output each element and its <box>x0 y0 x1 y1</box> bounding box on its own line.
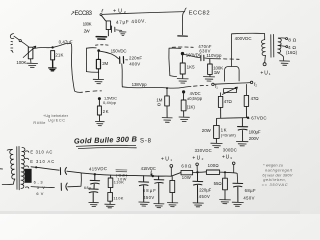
OPT primary coil <box>261 40 265 56</box>
svg-text:20W: 20W <box>202 128 212 133</box>
wire secondary lower to cap2 <box>31 186 54 189</box>
capacitor rectifier upper <box>60 167 66 174</box>
wire cap to grid run <box>205 57 221 60</box>
svg-text:+U₁: +U₁ <box>161 156 172 162</box>
svg-text:100µF: 100µF <box>249 129 261 134</box>
tick near input <box>12 51 13 53</box>
svg-text:S-8: S-8 <box>140 138 152 144</box>
svg-text:±0,5Vpp: ±0,5Vpp <box>187 96 203 101</box>
resistor 47R right <box>244 95 248 117</box>
resistor 21K <box>51 51 55 68</box>
node I +U2 <box>196 171 198 173</box>
ground under 2K <box>95 121 104 125</box>
svg-text:21K: 21K <box>55 52 63 57</box>
svg-text:2M: 2M <box>102 61 108 66</box>
resistor 100K grid leak 300B <box>208 59 213 76</box>
wire grid horizontal to ECC83 <box>75 91 83 92</box>
resistor 2K <box>97 100 101 121</box>
ground under last cap <box>232 202 243 206</box>
T1 secondary coil <box>21 147 25 188</box>
svg-text:60Ω: 60Ω <box>181 163 192 168</box>
note GZ underline <box>116 170 128 172</box>
resistor 55R bleeder <box>223 173 228 199</box>
ground under 1M <box>162 118 172 123</box>
wire anode to coupling cap <box>100 51 119 59</box>
resistor 2M <box>96 52 100 79</box>
filament terminal f2 <box>250 81 252 83</box>
svg-text:68µ: 68µ <box>84 186 91 190</box>
wire +U2 rail <box>102 12 185 15</box>
T1 secondary dark section <box>25 169 32 183</box>
svg-text:330VDC: 330VDC <box>195 148 212 153</box>
svg-text:2W: 2W <box>84 29 91 34</box>
svg-text:110K: 110K <box>114 180 124 185</box>
T1 secondary taps <box>25 151 29 188</box>
svg-text:ECC82: ECC82 <box>189 11 210 17</box>
node F 67VDC <box>247 117 249 119</box>
capacitor 220uF filter <box>193 173 203 202</box>
svg-text:68µF: 68µF <box>245 188 256 193</box>
capacitor 68uF filter <box>139 176 149 202</box>
filament wire <box>214 83 250 85</box>
wire bracket left of ECC82 <box>169 48 181 76</box>
svg-text:415VDC: 415VDC <box>89 166 107 172</box>
svg-text:(1K): (1K) <box>187 105 196 110</box>
resistor 1K 20W cathode bias <box>214 119 220 143</box>
wire cap down to long run <box>121 64 124 87</box>
svg-text:1W: 1W <box>214 70 221 75</box>
bleeder 110K upper <box>108 175 113 192</box>
node E 4VDC <box>182 90 185 93</box>
hum pot <box>222 87 237 94</box>
node B anode 150VDC <box>97 49 100 52</box>
OPT core <box>271 34 274 57</box>
node J 55R <box>224 171 226 173</box>
svg-text:←67VDC: ←67VDC <box>247 115 267 120</box>
T1 core <box>17 146 19 189</box>
svg-text:+U₂: +U₂ <box>113 8 126 14</box>
filament terminal f1 <box>212 83 214 85</box>
resistor vertical at +U1 <box>170 176 175 202</box>
T1 left edge stub <box>0 168 2 170</box>
resistor 1K cathode2 <box>181 93 186 116</box>
leg to 47R left <box>220 93 222 97</box>
capacitor 47uF decoupling <box>111 26 121 32</box>
junction 1M top <box>166 87 168 89</box>
svg-text:8Ω: 8Ω <box>288 38 296 44</box>
node C cathode 1,5VDC <box>98 97 101 100</box>
svg-text:100K: 100K <box>16 60 26 65</box>
svg-text:220nF: 220nF <box>129 56 142 61</box>
svg-text:55Ω: 55Ω <box>214 181 223 186</box>
capacitor 470nF <box>201 55 204 61</box>
wire rail drop to ECC82 plate <box>183 12 185 35</box>
svg-text:↗ECC83: ↗ECC83 <box>70 11 93 17</box>
ground OPT secondary <box>280 61 290 66</box>
tube ECC82 envelope dashes <box>172 46 193 48</box>
wire secondary to cap1 <box>31 167 59 170</box>
wire node to 470nF cap <box>184 54 200 57</box>
ground under 2M <box>93 79 103 83</box>
capacitor first filter (double) <box>89 175 100 202</box>
wire dashed to driver grid <box>194 85 208 88</box>
svg-text:0,47µF: 0,47µF <box>59 40 73 45</box>
resistor 47R left <box>218 96 222 117</box>
svg-text:110K: 110K <box>113 195 123 200</box>
capacitor 220nF coupling <box>120 57 128 64</box>
wire 300B plate to OPT <box>231 33 264 66</box>
node D 160VDC <box>181 52 184 55</box>
resistor 1M <box>165 89 170 117</box>
svg-text:450V: 450V <box>143 195 154 200</box>
ground under 55R <box>220 200 231 204</box>
ground under 100uF <box>236 141 248 146</box>
ground under 68uF <box>139 202 149 206</box>
svg-text:1K: 1K <box>221 128 227 133</box>
tube ECC83 box <box>86 48 98 73</box>
svg-text:Ug/ECC: Ug/ECC <box>48 118 65 122</box>
OPT secondary top tap 8R <box>278 37 285 39</box>
wire cap1 to join <box>67 171 81 173</box>
svg-text:415VDC: 415VDC <box>141 166 156 171</box>
tube 300B dome <box>225 66 240 81</box>
note asterisk annotation <box>262 163 293 187</box>
OPT secondary coil <box>278 38 282 52</box>
node G rectifier out <box>94 173 96 175</box>
svg-text:6,3: 6,3 <box>34 180 43 185</box>
svg-text:200V: 200V <box>249 136 259 141</box>
svg-text:400V: 400V <box>129 61 140 66</box>
leg to 47R right <box>245 84 247 95</box>
ground under 1K <box>179 117 189 122</box>
svg-text:1K5: 1K5 <box>187 65 196 70</box>
ground under +U1 resistor <box>167 203 177 207</box>
resistor 1K5 cathode <box>180 55 185 78</box>
resistor 100R series <box>206 170 219 174</box>
svg-text:100K: 100K <box>83 21 92 26</box>
OPT secondary bottom lead <box>278 53 284 61</box>
wire 60R to 100R <box>193 171 207 174</box>
terminal +U1 top <box>263 63 266 66</box>
svg-text:+U₃: +U₃ <box>222 155 232 161</box>
node rail start <box>100 14 102 16</box>
svg-text:6V: 6V <box>36 191 43 196</box>
ground under second cap <box>154 204 164 208</box>
ground under P1 <box>27 63 38 67</box>
capacitor second small <box>154 176 164 203</box>
title underline <box>76 145 137 148</box>
capacitor 68uF last <box>233 183 243 202</box>
bleeder 110K lower <box>108 192 113 203</box>
wire 100R to end <box>220 172 238 183</box>
svg-text:f₂: f₂ <box>254 82 257 87</box>
svg-text:47Ω: 47Ω <box>224 99 233 104</box>
ground under first filter cap <box>89 202 99 206</box>
svg-text:47Ω: 47Ω <box>251 96 260 101</box>
wire dashed grid run 300B <box>224 58 240 60</box>
svg-text:300DC: 300DC <box>223 147 237 152</box>
svg-text:0,4Vpp: 0,4Vpp <box>103 100 117 105</box>
wire grid drop vertical <box>71 44 74 91</box>
svg-text:RöMe: RöMe <box>33 121 45 125</box>
ground at 47uF <box>119 32 126 36</box>
wire node to grid drop <box>54 43 71 47</box>
node H 415VDC <box>152 175 154 177</box>
svg-text:(16Ω): (16Ω) <box>286 50 298 55</box>
wire pot wiper to node <box>34 48 52 49</box>
svg-text:450V: 450V <box>243 195 254 200</box>
svg-text:110Vpp: 110Vpp <box>206 53 222 58</box>
svg-text:E 310 AC: E 310 AC <box>30 150 52 155</box>
svg-text:E 310 AC: E 310 AC <box>30 159 54 164</box>
svg-text:2K: 2K <box>103 109 109 114</box>
terminal +U1 psu <box>170 165 173 168</box>
svg-text:f₁: f₁ <box>215 84 218 89</box>
arrow 415VDC down <box>150 170 152 175</box>
svg-text:450V: 450V <box>199 194 210 199</box>
node T1 tap <box>35 166 37 168</box>
svg-text:68µF: 68µF <box>143 188 156 193</box>
wire cap2 up to join <box>68 173 82 187</box>
wire long signal run <box>122 86 191 88</box>
T1 primary bottom lead <box>2 179 15 184</box>
input jack J1 <box>10 34 28 52</box>
resistor 100K 2W <box>101 16 110 36</box>
terminal +U3 psu <box>232 162 235 165</box>
svg-text:+Ug beheizter: +Ug beheizter <box>43 114 69 118</box>
svg-text:220µF: 220µF <box>199 188 211 193</box>
ground under 21K <box>49 68 56 71</box>
capacitor rectifier lower <box>61 183 67 190</box>
svg-text:+U₂: +U₂ <box>192 156 203 162</box>
svg-text:138Vpp: 138Vpp <box>132 82 148 87</box>
ground under 100K (wide) <box>96 37 106 40</box>
svg-text:+U₁: +U₁ <box>260 70 270 76</box>
wire cathode join <box>217 117 249 120</box>
ground under bias R <box>211 143 222 148</box>
ground under 220uF <box>193 203 203 207</box>
svg-text:400VDC: 400VDC <box>235 36 252 41</box>
ground under 1K5 <box>177 79 188 84</box>
svg-text:== 350VAC: == 350VAC <box>262 182 288 187</box>
wire dashed grid entry <box>86 90 102 93</box>
resistor 60R 10W series <box>181 170 193 174</box>
dashes above ECC83 node <box>96 44 109 46</box>
mains transformer T1 primary <box>7 148 12 151</box>
svg-text:(=Draht): (=Draht) <box>221 134 237 138</box>
svg-text:100Ω: 100Ω <box>208 163 220 168</box>
plate bar ECC82 <box>178 35 188 37</box>
svg-text:10W: 10W <box>182 175 191 180</box>
capacitor 100uF cathode bypass <box>238 118 248 141</box>
bottom scan shadow <box>0 211 300 214</box>
node A (junction at 21K) <box>51 46 53 48</box>
potentiometer P1 volume <box>23 46 36 62</box>
ground under 100K grid leak <box>203 77 214 82</box>
svg-text:150VDC: 150VDC <box>111 48 127 53</box>
OPT primary bottom lead <box>264 55 267 62</box>
ground under bleeders <box>105 204 115 208</box>
OPT secondary mid tap 4R <box>278 45 285 46</box>
wire B+ rail <box>81 173 181 177</box>
terminal +U2 psu <box>196 163 199 166</box>
